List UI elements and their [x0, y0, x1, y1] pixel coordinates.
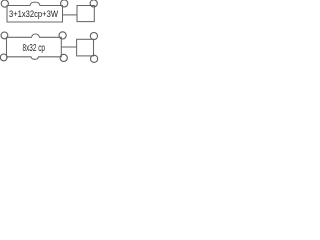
- svg-text:3+1x32cp+3W: 3+1x32cp+3W: [9, 9, 58, 19]
- wire from lamp unit 2 to flasher box 2: [61, 46, 76, 48]
- mounting ring top-right of lamp unit 2: [59, 32, 66, 39]
- mounting ring bottom-right of lamp unit 2: [60, 54, 67, 61]
- flasher box 1: [77, 6, 94, 22]
- mounting ring bottom-left of lamp unit 2: [0, 54, 7, 61]
- mounting ring top-left of lamp unit 2: [1, 32, 8, 39]
- mounting ring top-right of flasher box 1: [90, 0, 97, 7]
- flasher box 2: [77, 39, 94, 56]
- lamp unit 1 housing with keying bump: [7, 2, 63, 22]
- lamp unit 2 housing with top and bottom keying bumps: [7, 34, 62, 59]
- mounting ring top-left of lamp unit 1: [1, 0, 8, 7]
- wire from lamp unit 1 to flasher box 1: [63, 14, 78, 16]
- svg-text:8x32 cp: 8x32 cp: [23, 43, 46, 54]
- mounting ring top-right of flasher box 2: [90, 33, 97, 40]
- mounting ring bottom-right of flasher box 2: [91, 55, 98, 62]
- mounting ring top-right of lamp unit 1: [61, 0, 68, 7]
